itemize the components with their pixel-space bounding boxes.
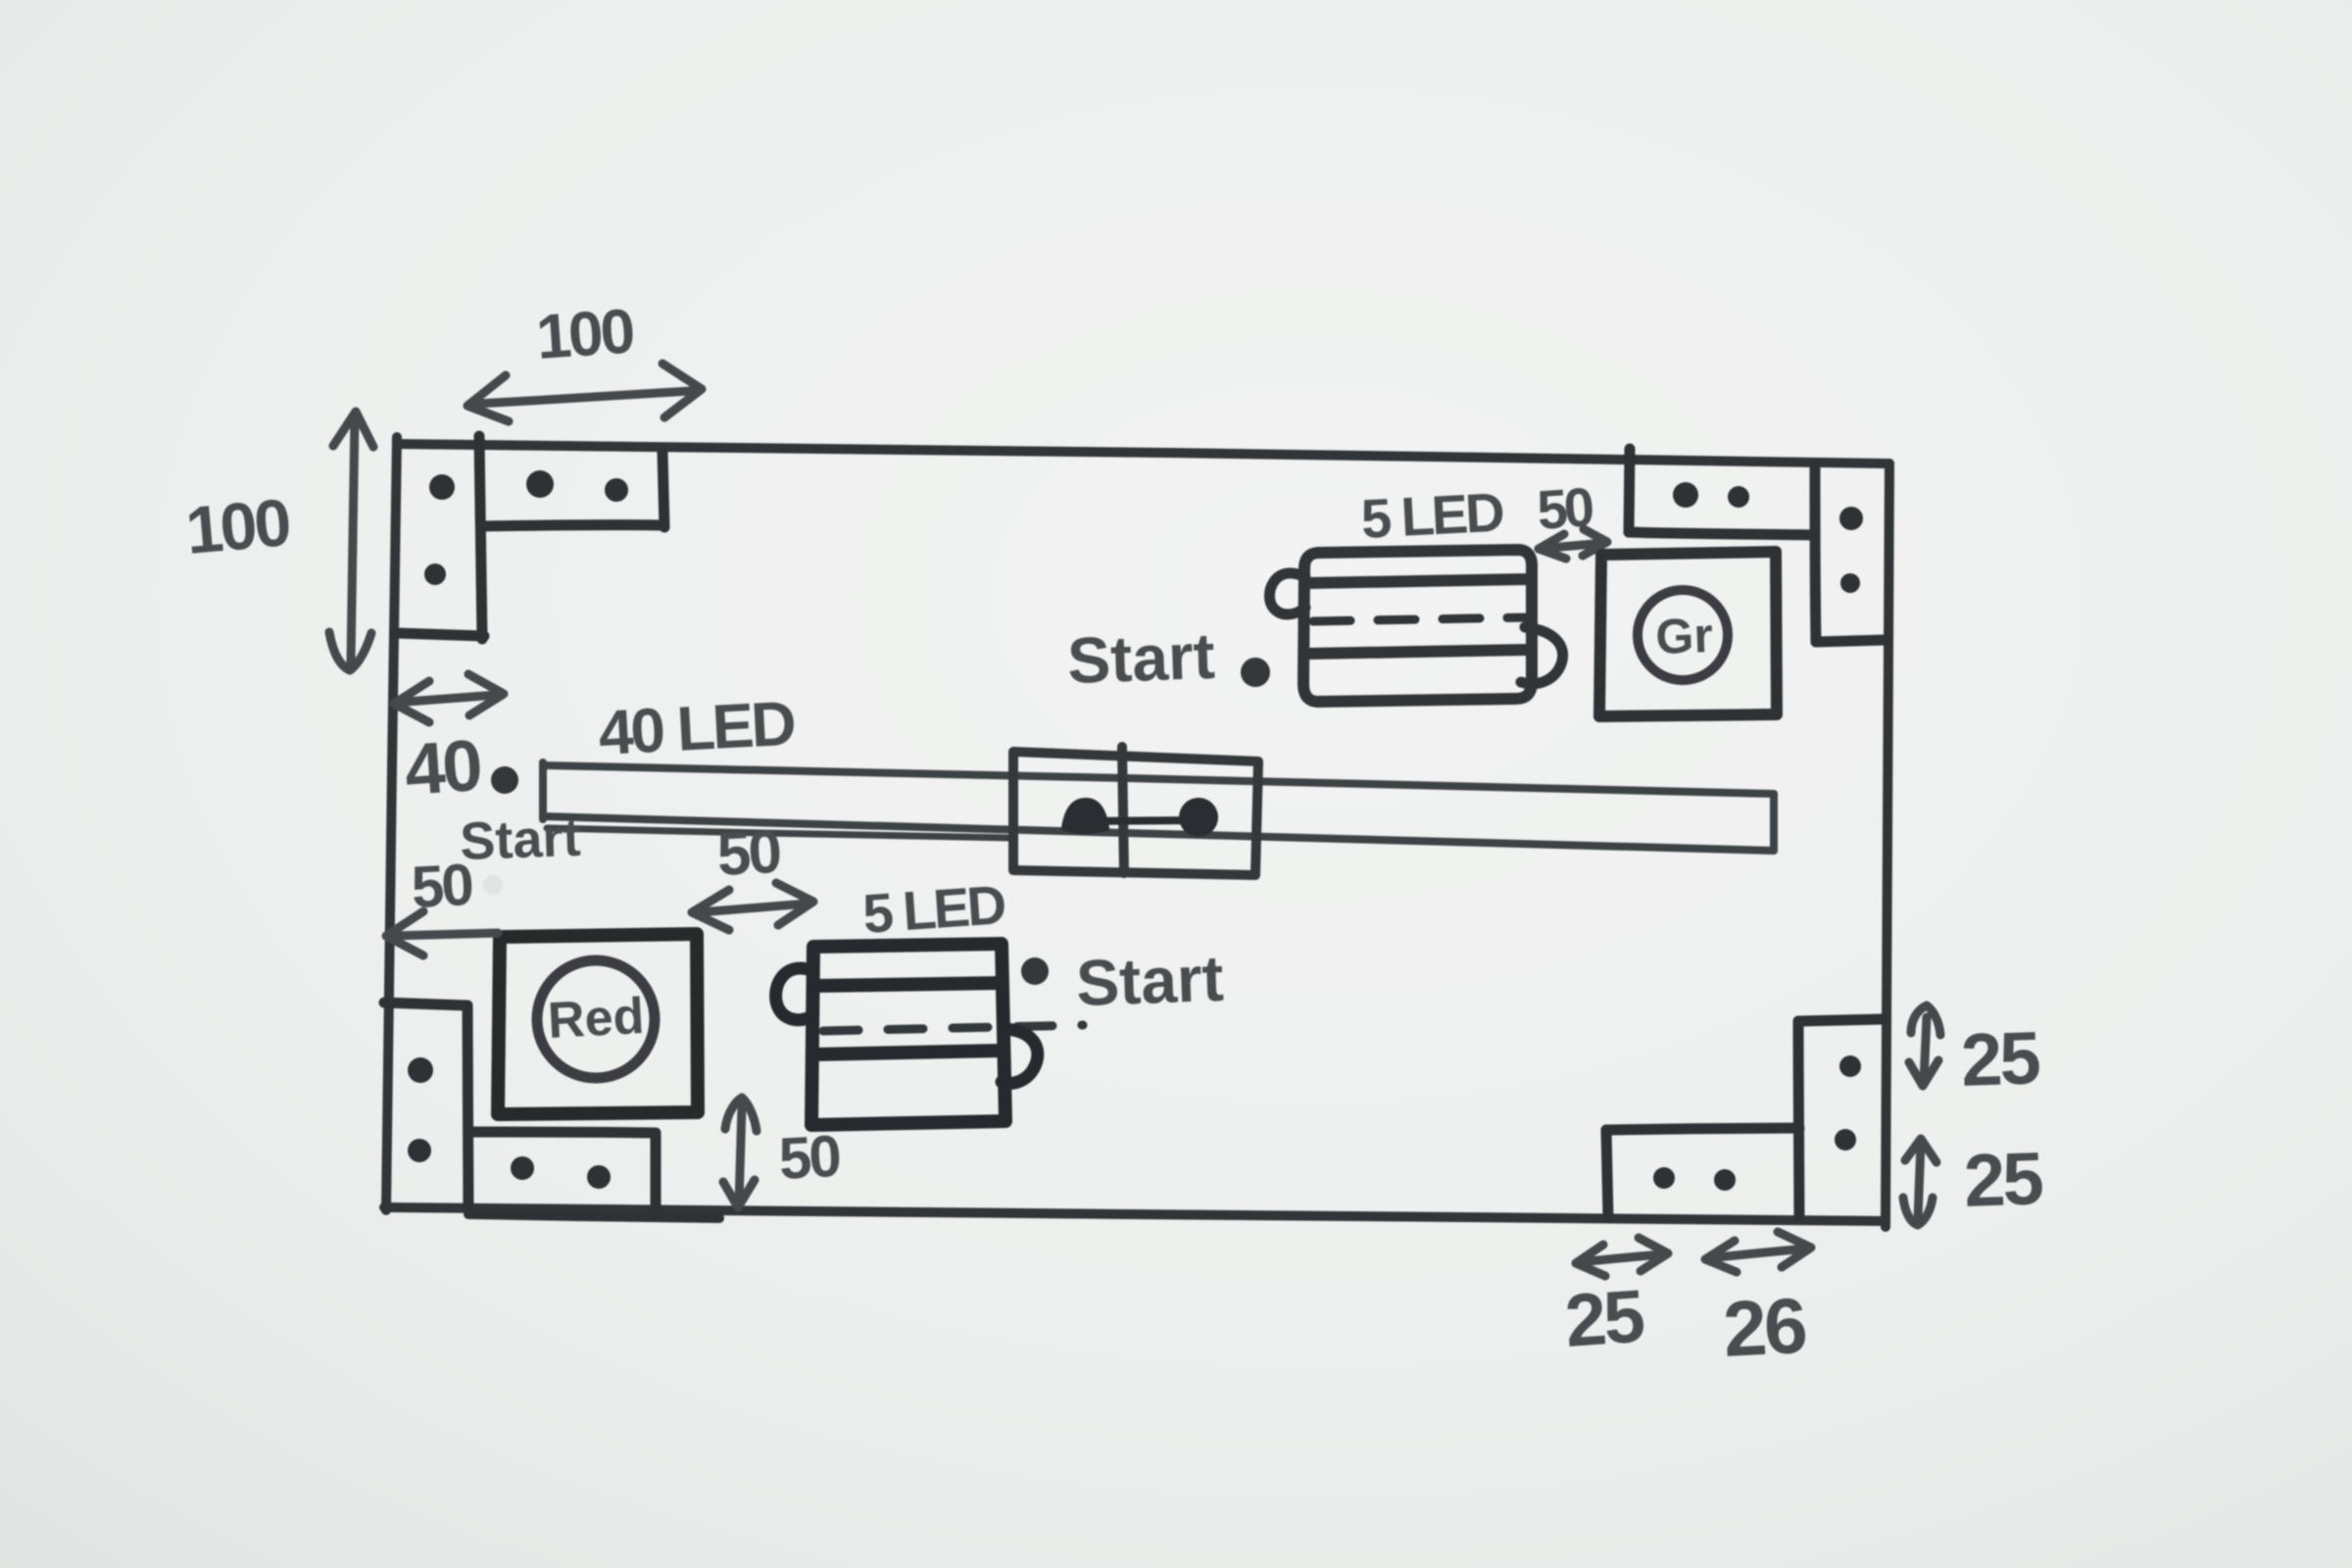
bracket TL hole 1 xyxy=(429,474,455,500)
bracket BR hole 1 xyxy=(1839,1055,1861,1077)
svg-text:Start: Start xyxy=(1066,619,1216,697)
5 LED strip bottom dashed centre line xyxy=(823,1025,1083,1031)
corner bracket top-right xyxy=(1629,449,1886,642)
module pin blob right xyxy=(1179,798,1218,837)
bracket BL vertical leg inner edge xyxy=(467,1005,468,1207)
bracket BL hole 2 xyxy=(408,1139,431,1162)
40 LED strip right end cap xyxy=(1770,794,1778,851)
5 LED strip top left cable loop xyxy=(1269,573,1305,614)
module pin wire xyxy=(1083,820,1199,821)
dimension arrow 50 top right xyxy=(1539,529,1607,559)
40 LED strip doubled bottom stroke xyxy=(547,828,1011,838)
svg-text:25: 25 xyxy=(1960,1016,2041,1102)
bracket BR hole 2 xyxy=(1835,1129,1856,1151)
dimension arrow 25 bottom first xyxy=(1576,1238,1668,1276)
5 LED strip bottom xyxy=(811,944,1005,1125)
svg-text:Start: Start xyxy=(459,808,581,871)
bracket TL hole 4 xyxy=(605,478,628,502)
board bottom edge xyxy=(384,1207,1886,1221)
bracket TL vertical leg bottom cap xyxy=(396,633,484,636)
bracket BR hole 4 xyxy=(1714,1169,1736,1191)
svg-text:5 LED: 5 LED xyxy=(860,873,1006,945)
bracket TR hole 3 xyxy=(1839,507,1863,530)
bracket TR vertical leg bottom cap xyxy=(1816,640,1886,642)
connector module on 40 LED strip xyxy=(1013,747,1258,875)
bracket TR vertical leg inner edge xyxy=(1815,465,1816,642)
svg-text:Start: Start xyxy=(1075,942,1225,1019)
faint smudge xyxy=(483,875,503,895)
bracket TR horizontal leg bottom edge xyxy=(1629,532,1815,535)
bracket BL horizontal leg end cap xyxy=(651,1133,661,1213)
dimension arrow 25 right upper xyxy=(1909,1005,1940,1086)
dimension arrow 50 middle xyxy=(692,883,813,930)
svg-text:25: 25 xyxy=(1963,1137,2044,1223)
start dot for 40 LED strip xyxy=(491,766,518,794)
5 LED strip bottom right hook xyxy=(1002,1029,1038,1083)
40 LED strip top edge xyxy=(543,765,1774,794)
5 LED strip bottom band line 2 xyxy=(813,1051,1002,1054)
bracket BL horizontal leg top edge xyxy=(468,1132,656,1133)
Gr box xyxy=(1599,552,1777,716)
bracket BL hole 4 xyxy=(587,1165,611,1189)
40 LED strip left end cap xyxy=(539,762,547,819)
5 LED strip bottom band line 1 xyxy=(813,983,1002,986)
svg-text:Red: Red xyxy=(547,988,646,1050)
Gr circle xyxy=(1638,590,1728,680)
module outer box xyxy=(1013,752,1258,875)
Red box xyxy=(498,934,698,1114)
Red circle xyxy=(537,960,655,1078)
5 LED strip bottom outer box xyxy=(811,944,1005,1125)
dimension arrow 25 right lower xyxy=(1903,1139,1936,1225)
board top edge xyxy=(397,444,1889,464)
bracket TR hole 1 xyxy=(1673,482,1698,508)
bracket TL hole 2 xyxy=(424,563,446,585)
bracket BL hole 3 xyxy=(511,1156,534,1180)
5 LED strip top band line 1 xyxy=(1307,579,1529,583)
5 LED strip top outer box xyxy=(1303,550,1532,702)
start dot for top 5 LED strip xyxy=(1241,658,1270,687)
bracket TL horizontal leg end cap xyxy=(662,453,664,527)
bracket TL vertical leg inner edge xyxy=(479,436,482,639)
dimension arrow 40 xyxy=(394,674,504,722)
doubled bottom edge stroke xyxy=(468,1214,719,1218)
bracket TR hole 4 xyxy=(1840,573,1860,593)
bracket TR hole 2 xyxy=(1728,486,1749,508)
svg-text:100: 100 xyxy=(534,295,635,372)
svg-text:5 LED: 5 LED xyxy=(1359,480,1504,550)
corner bracket top-left xyxy=(396,436,664,639)
module centre divider xyxy=(1122,747,1124,873)
svg-text:100: 100 xyxy=(183,485,293,568)
5 LED strip top xyxy=(1303,550,1532,702)
bracket TL horizontal leg bottom edge xyxy=(482,525,662,526)
5 LED strip top right hook xyxy=(1521,627,1563,684)
svg-text:40 LED: 40 LED xyxy=(597,688,796,768)
svg-text:26: 26 xyxy=(1721,1282,1807,1373)
start dot for bottom 5 LED strip xyxy=(1021,957,1049,985)
bracket BL vertical leg top cap xyxy=(384,1003,467,1005)
board right edge xyxy=(1886,464,1889,1227)
5 LED strip bottom left cable loop xyxy=(776,968,811,1020)
bracket BR hole 3 xyxy=(1653,1167,1675,1189)
svg-text:50: 50 xyxy=(715,818,781,889)
svg-text:40: 40 xyxy=(402,724,483,810)
dimension arrow 50 bottom vertical xyxy=(723,1098,757,1207)
corner bracket bottom-right xyxy=(1606,1019,1883,1218)
svg-text:Gr: Gr xyxy=(1654,608,1713,664)
bracket TL hole 3 xyxy=(526,470,554,498)
bracket BR vertical leg inner edge xyxy=(1798,1021,1799,1217)
5 LED strip top band line 2 xyxy=(1307,650,1529,654)
bracket BL hole 1 xyxy=(408,1057,433,1083)
dimension arrow 100 left xyxy=(329,412,373,670)
5 LED strip top dashed centre line xyxy=(1313,617,1529,621)
board left edge xyxy=(386,437,397,1210)
dimension arrow 100 top xyxy=(467,364,702,421)
dimension arrow 25 bottom second xyxy=(1705,1232,1811,1272)
bracket BR vertical leg top cap xyxy=(1798,1019,1883,1021)
bracket BR horizontal leg end cap xyxy=(1606,1130,1608,1218)
40 LED strip outline xyxy=(543,762,1774,851)
corner bracket bottom-left xyxy=(384,1003,656,1213)
svg-text:50: 50 xyxy=(777,1123,841,1192)
board outline xyxy=(384,437,1889,1227)
svg-text:25: 25 xyxy=(1562,1275,1646,1363)
bracket TR horizontal leg end cap xyxy=(1629,449,1630,532)
dimension arrow 50 left xyxy=(386,911,498,955)
40 LED strip bottom edge xyxy=(543,816,1774,851)
bracket BR horizontal leg top edge xyxy=(1606,1128,1799,1130)
module pin blob left xyxy=(1064,801,1106,831)
